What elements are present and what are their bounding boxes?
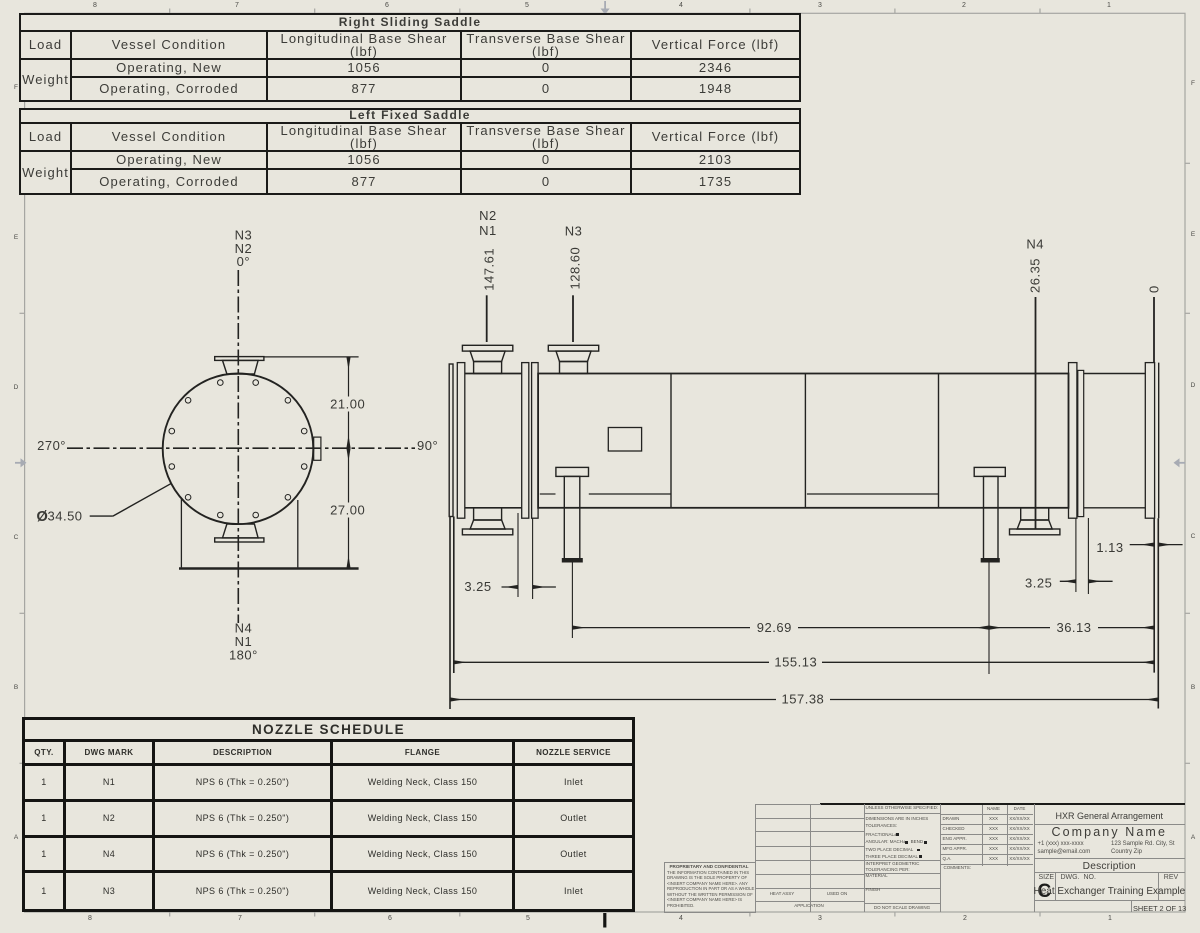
- svg-text:34.50: 34.50: [48, 509, 83, 524]
- svg-text:128.60: 128.60: [567, 247, 582, 290]
- svg-text:36.13: 36.13: [1056, 620, 1091, 635]
- svg-text:0: 0: [1146, 285, 1161, 293]
- svg-text:26.35: 26.35: [1028, 258, 1043, 293]
- svg-text:21.00: 21.00: [330, 397, 365, 412]
- svg-text:0°: 0°: [237, 254, 250, 269]
- svg-text:N4: N4: [1026, 237, 1044, 252]
- svg-text:92.69: 92.69: [757, 620, 792, 635]
- svg-text:27.00: 27.00: [330, 503, 365, 518]
- svg-text:N2: N2: [479, 208, 497, 223]
- svg-text:1.13: 1.13: [1096, 540, 1123, 555]
- svg-text:155.13: 155.13: [774, 655, 817, 670]
- svg-text:N3: N3: [565, 224, 583, 239]
- svg-text:3.25: 3.25: [464, 579, 491, 594]
- svg-text:270°: 270°: [37, 438, 66, 453]
- svg-text:Ø: Ø: [37, 509, 49, 525]
- svg-text:3.25: 3.25: [1025, 576, 1052, 591]
- svg-text:N1: N1: [479, 223, 497, 238]
- svg-text:147.61: 147.61: [482, 248, 497, 291]
- svg-text:90°: 90°: [417, 438, 438, 453]
- svg-text:157.38: 157.38: [782, 692, 825, 707]
- svg-text:180°: 180°: [229, 648, 258, 663]
